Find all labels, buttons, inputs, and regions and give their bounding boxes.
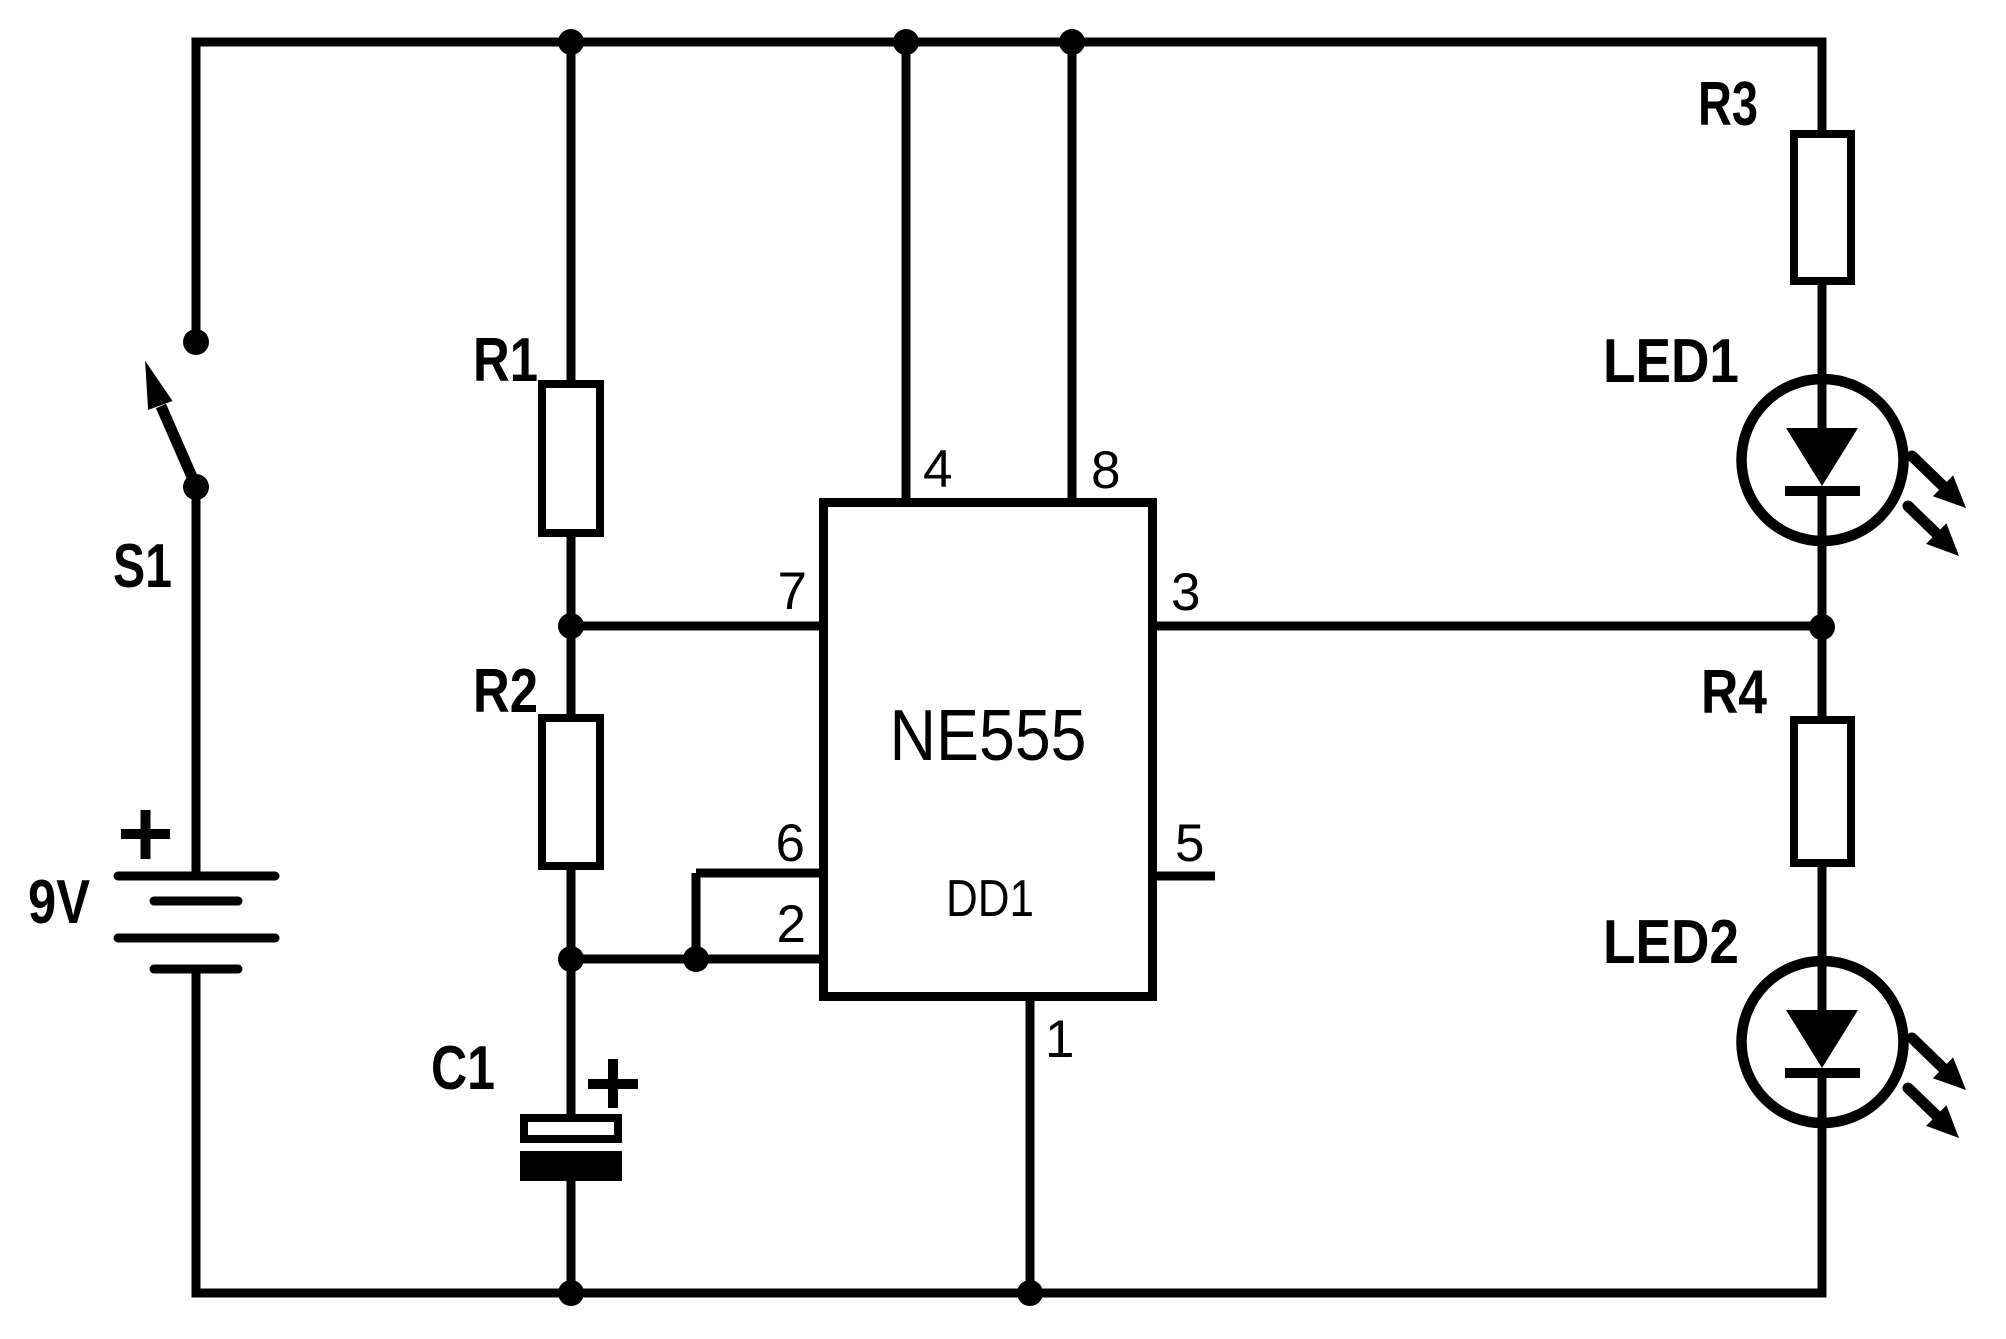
battery plate long xyxy=(118,934,275,943)
svg-text:DD1: DD1 xyxy=(946,870,1034,928)
wire pin 7 xyxy=(571,622,823,631)
node bottom rail / C1 xyxy=(558,1280,584,1306)
wire jog pin6 to pin2 xyxy=(692,873,701,959)
wire top loop: left upper + top rail + right upper xyxy=(196,42,1822,342)
wire R2 to C1 through node pin2 xyxy=(567,870,576,1114)
svg-text:8: 8 xyxy=(1091,441,1120,500)
wire top rail to R1 xyxy=(567,42,576,380)
LED1 circle xyxy=(1742,379,1904,541)
node pin2 / pin6 jog xyxy=(683,946,709,972)
svg-text:3: 3 xyxy=(1171,563,1200,622)
wire pin 1 xyxy=(1026,1001,1035,1293)
capacitor C1 plus sign xyxy=(588,1059,638,1108)
battery BT1 plate long top xyxy=(118,872,275,881)
node top rail / pin8 xyxy=(1059,29,1085,55)
wire battery to lower switch terminal xyxy=(192,487,201,872)
svg-text:C1: C1 xyxy=(431,1034,495,1103)
svg-text:R4: R4 xyxy=(1701,658,1767,727)
node bottom rail / pin1 xyxy=(1017,1280,1043,1306)
switch S1 arrowhead xyxy=(145,361,173,410)
svg-text:NE555: NE555 xyxy=(890,696,1087,776)
node pin3 / LED1-R4 xyxy=(1809,614,1835,640)
battery plus sign xyxy=(121,810,170,859)
resistor R4 xyxy=(1794,720,1851,863)
capacitor C1 bottom plate xyxy=(520,1151,622,1181)
switch S1 blade xyxy=(161,406,196,486)
LED1 emission arrow upper xyxy=(1912,456,1944,487)
node switch lower terminal xyxy=(183,474,209,500)
svg-text:R1: R1 xyxy=(473,326,538,395)
node top rail / pin4 xyxy=(893,29,919,55)
svg-text:2: 2 xyxy=(777,895,806,954)
svg-text:LED1: LED1 xyxy=(1603,327,1739,396)
LED1 triangle xyxy=(1786,428,1858,486)
svg-text:R3: R3 xyxy=(1698,70,1758,139)
resistor R2 xyxy=(542,718,600,866)
svg-text:S1: S1 xyxy=(113,532,172,601)
resistor R3 xyxy=(1794,134,1851,281)
LED2 cathode bar xyxy=(1785,1068,1860,1078)
svg-text:4: 4 xyxy=(923,440,952,499)
svg-text:LED2: LED2 xyxy=(1603,908,1739,977)
LED1 cathode bar xyxy=(1785,486,1860,496)
wire R1 to R2 through node pin7 xyxy=(567,537,576,714)
LED2 emission arrow upper xyxy=(1912,1038,1944,1069)
wire pin 8 xyxy=(1068,42,1077,498)
svg-text:6: 6 xyxy=(776,814,805,873)
wire C1 to bottom rail xyxy=(567,1181,576,1293)
wire LED1 cathode to R4 xyxy=(1818,491,1827,716)
wire pin 3 xyxy=(1157,622,1822,631)
LED2 emission arrow lower xyxy=(1908,1088,1938,1117)
svg-text:1: 1 xyxy=(1045,1010,1074,1069)
capacitor C1 top plate xyxy=(524,1118,618,1139)
LED2 triangle xyxy=(1786,1010,1858,1068)
wire R4 to LED2 anode xyxy=(1818,867,1827,1010)
wire pin 6 xyxy=(696,869,823,878)
LED1 emission arrow lower xyxy=(1908,506,1938,535)
wire pin 2 xyxy=(571,955,823,964)
wire pin 5 stub xyxy=(1157,872,1215,881)
node top rail / R1 xyxy=(558,29,584,55)
battery plate short bottom xyxy=(154,965,238,974)
wire bottom loop: battery bottom + bottom rail + LED2 cathode riser xyxy=(196,966,1822,1293)
svg-text:9V: 9V xyxy=(28,868,90,937)
wire R3 to LED1 anode xyxy=(1818,285,1827,428)
node pin2 / R2-C1 xyxy=(558,946,584,972)
node pin7 / R1-R2 xyxy=(558,613,584,639)
svg-text:7: 7 xyxy=(778,562,807,621)
op IC NE555 DD1 body xyxy=(824,503,1153,997)
svg-text:R2: R2 xyxy=(473,657,538,726)
node switch upper terminal xyxy=(183,329,209,355)
wire pin 4 xyxy=(902,42,911,498)
battery plate short xyxy=(154,897,238,906)
resistor R1 xyxy=(542,384,600,533)
LED2 circle xyxy=(1742,961,1904,1123)
svg-text:5: 5 xyxy=(1175,814,1204,873)
